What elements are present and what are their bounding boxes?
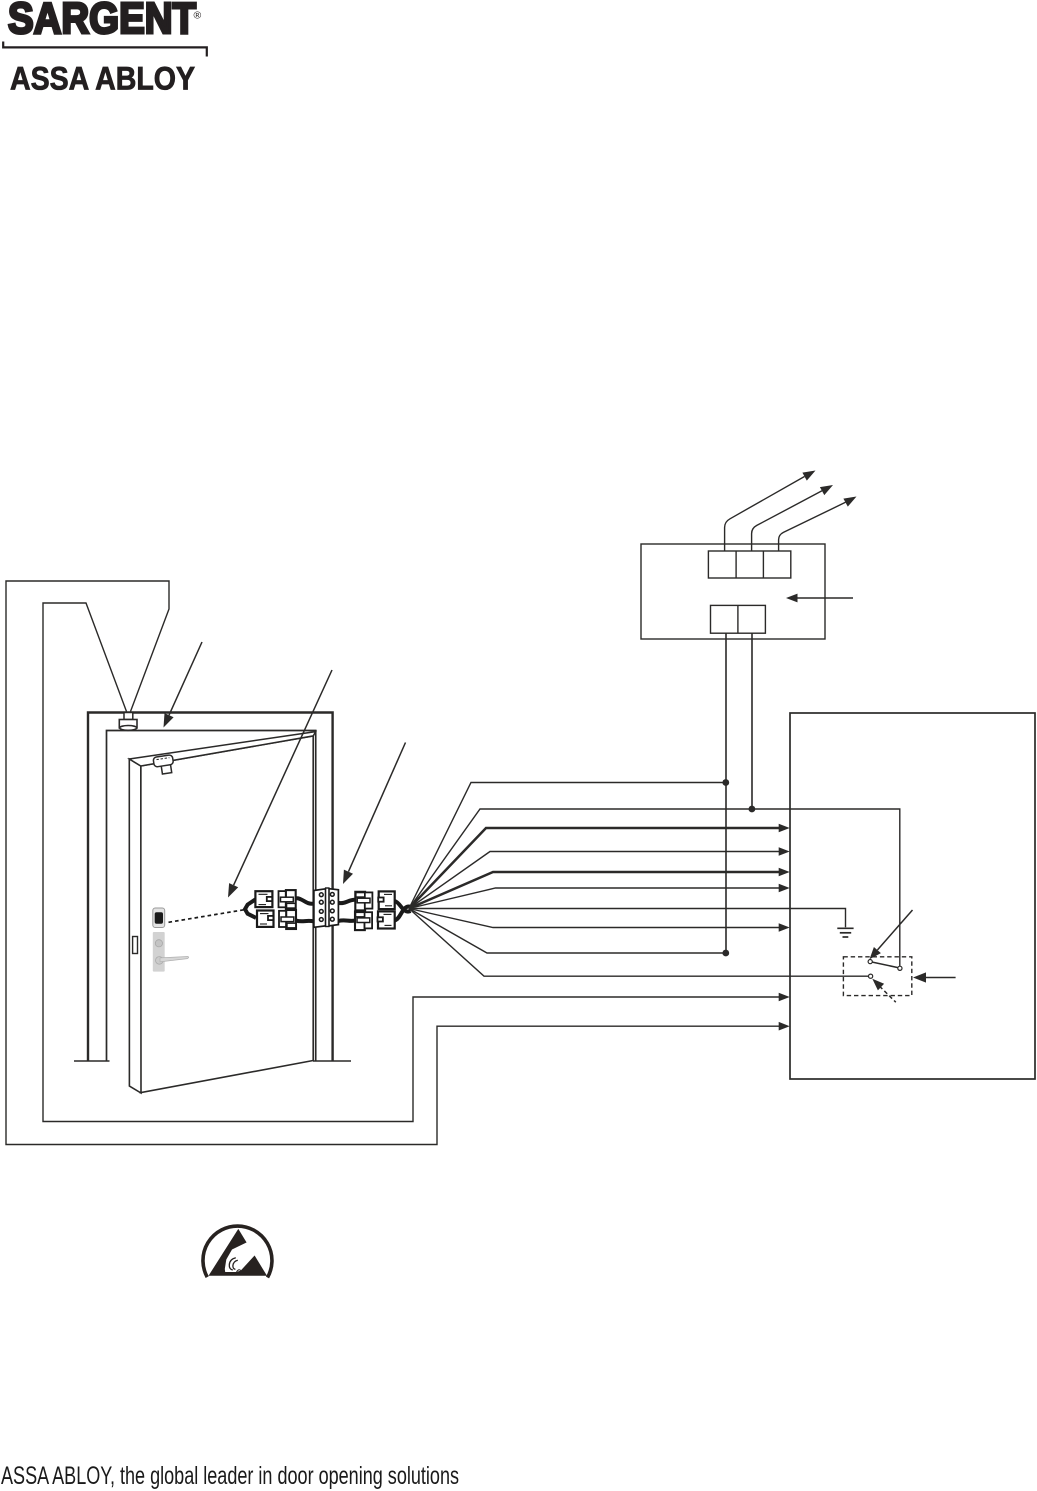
DC terminal strip 2-position bbox=[711, 605, 766, 633]
connector plug wall-side lower bbox=[378, 911, 395, 928]
relay blade tip terminal bbox=[868, 960, 872, 964]
connector receptacle wall-side upper bbox=[355, 892, 372, 911]
DC output wire - bbox=[751, 633, 753, 809]
junction dot B bbox=[749, 806, 756, 813]
arrowhead loop inner into panel bbox=[779, 993, 790, 1002]
top latch device on door top edge bbox=[153, 755, 175, 775]
callout arrow to power supply bbox=[786, 594, 853, 603]
connector plug door-side lower bbox=[257, 911, 274, 927]
harness crossover to wire fan lower bbox=[395, 906, 411, 920]
wire fan line 4 into panel bbox=[409, 852, 780, 909]
wire fan line 9 to -DC junction bbox=[409, 909, 726, 954]
relay blade pivot terminal bbox=[898, 966, 902, 970]
svg-text:SARGENT: SARGENT bbox=[8, 0, 196, 43]
harness wire receptacle to hinge lower bbox=[296, 919, 314, 924]
AC supply wire 2 with arrow bbox=[752, 491, 822, 551]
wire fan line 5 (bold) into panel bbox=[409, 872, 780, 909]
control panel box bbox=[790, 713, 1035, 1079]
electric hinge bbox=[314, 888, 339, 927]
ground symbol bbox=[837, 928, 853, 937]
SARGENT logo wordmark bbox=[8, 0, 202, 43]
AC terminal strip 3-position bbox=[708, 551, 790, 578]
harness wire hinge to wall-side receptacle lower bbox=[338, 918, 355, 923]
junction dot C bbox=[722, 950, 729, 957]
arrowhead loop outer into panel bbox=[779, 1022, 790, 1031]
connector receptacle wall-side lower bbox=[355, 912, 372, 931]
dotted wire from card reader to harness bbox=[169, 910, 246, 923]
harness wire hinge to wall-side receptacle upper bbox=[338, 900, 355, 903]
relay alternate throw (dashed) bbox=[880, 986, 896, 1002]
lock edge faceplate on door edge bbox=[133, 937, 138, 954]
svg-text:ASSA ABLOY: ASSA ABLOY bbox=[10, 61, 195, 97]
logo divider bracket bbox=[3, 42, 207, 57]
door frame bbox=[74, 713, 351, 1062]
callout arrow to reader wire bbox=[228, 670, 332, 898]
wire fan line 10 to relay NO contact bbox=[409, 909, 868, 977]
wire fan line 7 to ground bbox=[409, 909, 846, 928]
power supply box bbox=[641, 544, 825, 639]
connector receptacle door-side lower bbox=[279, 910, 296, 929]
connector plug wall-side upper bbox=[378, 891, 395, 909]
connector plug door-side upper bbox=[255, 891, 272, 907]
connector receptacle door-side upper bbox=[279, 890, 296, 909]
callout arrow to relay blade bbox=[870, 910, 913, 959]
relay blade bbox=[872, 962, 898, 968]
wire fan line 6 into panel bbox=[409, 888, 780, 909]
relay throw arrowhead bbox=[872, 979, 884, 991]
callout arrow to hinge bbox=[343, 743, 406, 885]
wire fan line 2 to relay common bbox=[409, 809, 900, 966]
harness wire receptacle to hinge upper bbox=[296, 898, 314, 904]
ESD caution symbol bbox=[203, 1226, 272, 1277]
harness crossover to wire fan upper bbox=[395, 901, 411, 912]
card reader on door bbox=[153, 908, 165, 928]
harness V split at reader cable bbox=[245, 899, 256, 918]
junction dot A bbox=[722, 779, 729, 786]
wire fan line 1 to +DC junction bbox=[409, 783, 726, 909]
lock escutcheon and lever bbox=[153, 932, 189, 972]
relay NO contact terminal bbox=[869, 974, 873, 978]
wire fan line 3 (bold) into panel bbox=[409, 828, 780, 909]
svg-text:ASSA ABLOY, the global leader: ASSA ABLOY, the global leader in door op… bbox=[1, 1462, 459, 1490]
wire fan line 8 into panel bbox=[409, 909, 780, 928]
relay contact dashed enclosure bbox=[843, 957, 911, 996]
DC output wire + bbox=[725, 633, 727, 953]
callout arrow to frame bbox=[164, 642, 203, 728]
callout arrow to relay box bbox=[913, 972, 956, 982]
svg-text:®: ® bbox=[194, 10, 202, 22]
door position switch on frame header bbox=[119, 713, 137, 731]
door (open, perspective) bbox=[129, 732, 315, 1093]
AC supply wire 1 with arrow bbox=[725, 477, 805, 552]
wire loop outer (door position switch to panel, outer run) bbox=[6, 581, 780, 1145]
AC supply wire 3 with arrow bbox=[779, 502, 846, 551]
wire loop inner (switch to panel, inner run) bbox=[43, 603, 780, 1122]
